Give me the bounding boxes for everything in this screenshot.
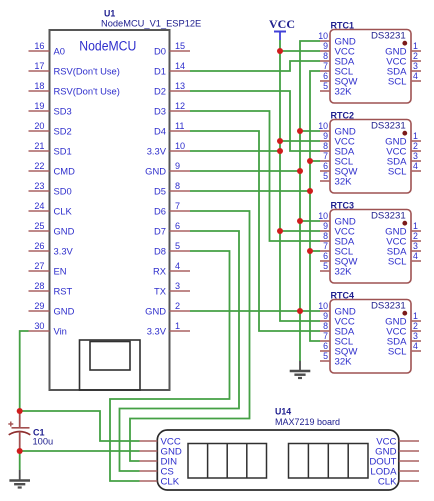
RTC2 left pin 10 GND [318, 121, 356, 137]
svg-text:6: 6 [323, 161, 328, 171]
svg-text:11: 11 [175, 121, 184, 131]
U14 left pin CLK [140, 477, 180, 488]
U1 left pin 27 EN [29, 261, 67, 276]
wire GND pin 9 to GND rail [190, 170, 300, 172]
svg-text:7: 7 [323, 241, 328, 251]
op-amp RTC3 DS3231 symbol body [330, 210, 411, 284]
RTC3 right pin 2 VCC [386, 231, 421, 247]
U1 right pin 1 3.3V [147, 321, 190, 336]
svg-text:DS3231: DS3231 [371, 121, 406, 132]
svg-text:SD3: SD3 [54, 106, 72, 117]
U1 right pin 3 TX [154, 281, 190, 296]
svg-text:CLK: CLK [378, 477, 397, 488]
svg-text:D7: D7 [154, 226, 166, 237]
svg-text:24: 24 [34, 201, 44, 211]
svg-text:100u: 100u [33, 436, 54, 446]
RTC1 right pin 1 GND [385, 41, 421, 57]
svg-text:5: 5 [323, 261, 328, 271]
svg-text:15: 15 [175, 41, 185, 51]
RTC1 right pin 4 SCL [388, 71, 421, 87]
wire D1 pin 14 to RTC1 SDA pin 8 [190, 61, 320, 71]
op-amp RTC4 DS3231 symbol body [330, 300, 411, 374]
U14 left pin GND [140, 447, 182, 458]
junction VCC rail RTC2 [277, 138, 283, 144]
svg-text:7: 7 [323, 61, 328, 71]
svg-text:D2: D2 [154, 86, 166, 97]
svg-text:RTC4: RTC4 [331, 291, 355, 301]
svg-text:D8: D8 [154, 246, 166, 257]
svg-text:18: 18 [34, 81, 44, 91]
wire D2 pin 13 to RTC2 SDA pin 8 [190, 91, 320, 151]
svg-text:RX: RX [153, 266, 167, 277]
svg-text:VCC: VCC [269, 17, 295, 31]
svg-text:NodeMCU_V1_ESP12E: NodeMCU_V1_ESP12E [101, 18, 201, 28]
wire Vin pin 30 down to capacitor C1 [20, 331, 29, 411]
svg-text:17: 17 [34, 61, 44, 71]
svg-text:6: 6 [323, 71, 328, 81]
svg-text:CMD: CMD [54, 166, 76, 177]
svg-text:3.3V: 3.3V [147, 326, 167, 337]
wire GND rail branch to RTC3 GND pin 10 [300, 220, 320, 222]
svg-text:10: 10 [318, 301, 328, 311]
svg-text:D4: D4 [154, 126, 166, 137]
svg-text:GND: GND [54, 226, 75, 237]
junction SCL rail RTC2 [307, 158, 313, 164]
svg-text:RTC3: RTC3 [331, 201, 355, 211]
svg-text:A0: A0 [54, 46, 65, 57]
U14 right pin VCC [376, 437, 419, 448]
svg-text:7: 7 [323, 151, 328, 161]
RTC3 right pin 4 SCL [388, 251, 421, 267]
svg-text:1: 1 [413, 221, 418, 231]
wire VCC rail branch to RTC3 VCC pin 9 [280, 230, 320, 232]
svg-text:22: 22 [34, 161, 44, 171]
junction SCL rail RTC3 [307, 248, 313, 254]
svg-text:9: 9 [323, 131, 328, 141]
U1 right pin 9 GND [145, 161, 190, 176]
U1 left pin 24 CLK [29, 201, 73, 216]
svg-text:9: 9 [323, 311, 328, 321]
svg-text:7: 7 [175, 201, 180, 211]
svg-text:2: 2 [175, 301, 180, 311]
svg-text:2: 2 [413, 321, 418, 331]
svg-text:4: 4 [413, 71, 418, 81]
RTC1 right pin 2 VCC [386, 51, 421, 67]
svg-text:19: 19 [34, 101, 44, 111]
RTC4 right pin 2 VCC [386, 321, 421, 337]
svg-text:5: 5 [323, 171, 328, 181]
RTC2 left pin 9 VCC [320, 131, 355, 147]
svg-text:32K: 32K [335, 177, 353, 188]
svg-text:5: 5 [323, 351, 328, 361]
svg-text:NodeMCU: NodeMCU [79, 38, 136, 53]
U14 left pin CS [140, 467, 174, 478]
svg-text:8: 8 [323, 231, 328, 241]
wire SCL rail vertical RTC1 SCL to RTC4 SCL [310, 71, 320, 341]
svg-text:32K: 32K [335, 357, 353, 368]
svg-text:2: 2 [413, 51, 418, 61]
svg-text:21: 21 [34, 141, 44, 151]
svg-text:8: 8 [323, 141, 328, 151]
svg-text:SCL: SCL [388, 167, 407, 178]
svg-text:GND: GND [145, 166, 166, 177]
svg-text:GND: GND [145, 306, 166, 317]
RTC2 left pin 8 SDA [320, 141, 355, 157]
RTC2 left pin 6 SQW [320, 161, 358, 177]
U14 left pin VCC [140, 437, 181, 448]
op-amp RTC1 DS3231 symbol body [330, 30, 411, 104]
svg-text:28: 28 [34, 281, 44, 291]
U1 right pin 5 D8 [154, 241, 190, 256]
U14 left pin DIN [140, 457, 178, 468]
RTC3 left pin 6 SQW [320, 251, 358, 267]
U1 right pin 7 D6 [154, 201, 190, 216]
U1 right pin 6 D7 [154, 221, 190, 236]
U14 right pin CLK [378, 477, 419, 488]
wire D5 pin 8 to SCL rail [190, 190, 310, 192]
svg-text:4: 4 [413, 341, 418, 351]
U1 left pin 21 SD1 [29, 141, 72, 156]
wire 3.3V pin 10 to VCC rail [190, 150, 280, 152]
svg-text:MAX7219 board: MAX7219 board [275, 417, 340, 427]
wire D7 pin 6 to U14 CS [120, 231, 240, 471]
U14 right pin DOUT [369, 457, 419, 468]
junction GND rail RTC4 [297, 308, 303, 314]
wire D8 pin 5 to U14 CLK [110, 251, 230, 481]
U1 left pin 19 SD3 [29, 101, 72, 116]
svg-text:27: 27 [34, 261, 44, 271]
svg-text:DS3231: DS3231 [371, 31, 406, 42]
wire GND rail branch to RTC2 GND pin 10 [300, 130, 320, 132]
U1 left pin 17 RSV(Don't Use) [29, 61, 120, 76]
U1 right pin 4 RX [153, 261, 190, 276]
svg-text:U14: U14 [275, 407, 291, 417]
svg-text:2: 2 [413, 141, 418, 151]
U1 right pin 14 D1 [154, 61, 190, 76]
svg-text:29: 29 [34, 301, 44, 311]
svg-text:32K: 32K [335, 87, 353, 98]
svg-text:2: 2 [413, 231, 418, 241]
svg-text:CLK: CLK [54, 206, 73, 217]
svg-text:RTC1: RTC1 [331, 21, 355, 31]
U1 left pin 16 A0 [29, 41, 65, 56]
svg-text:6: 6 [323, 341, 328, 351]
RTC4 left pin 9 VCC [320, 311, 355, 327]
RTC1 left pin 7 SCL [320, 61, 354, 77]
U1 left pin 18 RSV(Don't Use) [29, 81, 120, 96]
junction VCC rail RTC3 [277, 228, 283, 234]
svg-text:Vin: Vin [54, 326, 67, 337]
svg-text:1: 1 [413, 41, 418, 51]
svg-text:SCL: SCL [388, 77, 407, 88]
svg-text:10: 10 [318, 211, 328, 221]
RTC4 left pin 7 SCL [320, 331, 354, 347]
svg-text:SCL: SCL [388, 347, 407, 358]
RTC4 left pin 10 GND [318, 301, 356, 317]
junction VCC rail RTC1 [277, 48, 283, 54]
svg-text:D1: D1 [154, 66, 166, 77]
RTC2 right pin 2 VCC [386, 141, 421, 157]
RTC2 left pin 7 SCL [320, 151, 354, 167]
svg-text:RTC2: RTC2 [331, 111, 355, 121]
svg-text:5: 5 [323, 81, 328, 91]
wire D6 pin 7 to U14 DIN [130, 211, 250, 461]
svg-text:10: 10 [318, 31, 328, 41]
svg-text:4: 4 [413, 161, 418, 171]
U14 right pin LODA [370, 467, 419, 478]
svg-text:SCL: SCL [388, 257, 407, 268]
U1 right pin 13 D2 [154, 81, 190, 96]
svg-text:3: 3 [413, 241, 418, 251]
svg-text:16: 16 [34, 41, 44, 51]
wire VCC rail branch to RTC1 VCC pin 9 [280, 50, 320, 52]
wire D4 pin 11 to RTC4 SDA pin 8 [190, 131, 320, 331]
U1 left pin 23 SD0 [29, 181, 72, 196]
svg-text:TX: TX [154, 286, 167, 297]
RTC1 left pin 6 SQW [320, 71, 358, 87]
junction GND C1 node [17, 448, 23, 454]
svg-text:10: 10 [318, 121, 328, 131]
svg-text:1: 1 [175, 321, 180, 331]
svg-text:D3: D3 [154, 106, 166, 117]
RTC3 right pin 3 SDA [387, 241, 421, 257]
capacitor C1 100u polarized [8, 411, 30, 451]
svg-text:23: 23 [34, 181, 44, 191]
junction VCC rail 3.3V feed [277, 148, 283, 154]
svg-text:EN: EN [54, 266, 67, 277]
svg-text:RSV(Don't Use): RSV(Don't Use) [54, 66, 120, 77]
svg-text:4: 4 [175, 261, 180, 271]
svg-text:CLK: CLK [161, 477, 180, 488]
svg-text:RSV(Don't Use): RSV(Don't Use) [54, 86, 120, 97]
U1 left pin 26 3.3V [29, 241, 74, 256]
junction GND rail RTC2 [297, 128, 303, 134]
RTC4 left pin 8 SDA [320, 321, 355, 337]
U1 left pin 22 CMD [29, 161, 76, 176]
RTC1 left pin 5 32K [320, 81, 352, 97]
svg-text:1: 1 [413, 311, 418, 321]
wire SCL rail branch to RTC2 SCL pin 7 [310, 160, 320, 162]
power VCC symbol [269, 17, 295, 40]
RTC2 right pin 1 GND [385, 131, 421, 147]
svg-text:GND: GND [54, 306, 75, 317]
svg-text:8: 8 [323, 321, 328, 331]
U1 left pin 25 GND [29, 221, 75, 236]
RTC3 left pin 9 VCC [320, 221, 355, 237]
wire GND rail vertical from RTC1 GND down to ground [300, 41, 320, 361]
RTC1 left pin 10 GND [318, 31, 356, 47]
svg-text:SD0: SD0 [54, 186, 72, 197]
RTC2 right pin 3 SDA [387, 151, 421, 167]
RTC4 right pin 3 SDA [387, 331, 421, 347]
RTC1 left pin 8 SDA [320, 51, 355, 67]
op-amp U14 MAX7219 board symbol body [157, 430, 398, 490]
svg-text:9: 9 [323, 41, 328, 51]
wire D3 pin 12 to RTC3 SDA pin 8 [190, 111, 320, 241]
U1 right pin 11 D4 [154, 121, 190, 136]
svg-text:32K: 32K [335, 267, 353, 278]
svg-text:3.3V: 3.3V [147, 146, 167, 157]
junction GND rail RTC3 [297, 218, 303, 224]
U1 left pin 30 Vin [29, 321, 67, 336]
U1 right pin 15 D0 [154, 41, 190, 56]
svg-text:RST: RST [54, 286, 73, 297]
U1 right pin 8 D5 [154, 181, 190, 196]
RTC4 right pin 1 GND [385, 311, 421, 327]
svg-text:25: 25 [34, 221, 44, 231]
U14 right pin GND [375, 447, 419, 458]
op-amp RTC2 DS3231 symbol body [330, 120, 411, 194]
junction Vin C1 node [17, 408, 23, 414]
op-amp U1 NodeMCU_V1_ESP12E symbol body [50, 30, 170, 390]
wire VCC rail vertical from VCC symbol down to RTC4 VCC [280, 40, 320, 321]
svg-text:3: 3 [413, 61, 418, 71]
wire ground node to U14 GND [20, 450, 140, 452]
U1 right pin 10 3.3V [147, 141, 190, 156]
svg-text:3.3V: 3.3V [54, 246, 74, 257]
junction SCL rail D5 feed [307, 188, 313, 194]
svg-text:3: 3 [413, 151, 418, 161]
RTC4 right pin 4 SCL [388, 341, 421, 357]
RTC4 left pin 6 SQW [320, 341, 358, 357]
RTC3 left pin 8 SDA [320, 231, 355, 247]
svg-text:26: 26 [34, 241, 44, 251]
svg-text:12: 12 [175, 101, 185, 111]
RTC1 right pin 3 SDA [387, 61, 421, 77]
svg-text:3: 3 [413, 331, 418, 341]
RTC3 left pin 10 GND [318, 211, 356, 227]
svg-text:10: 10 [175, 141, 185, 151]
svg-text:3: 3 [175, 281, 180, 291]
wire node Vin to U14 VCC [20, 411, 140, 441]
RTC3 left pin 7 SCL [320, 241, 354, 257]
wire C1 minus to ground node [19, 451, 21, 470]
svg-text:4: 4 [413, 251, 418, 261]
U1 left pin 20 SD2 [29, 121, 72, 136]
svg-text:6: 6 [323, 251, 328, 261]
RTC2 left pin 5 32K [320, 171, 352, 187]
junction GND rail pin9 feed [297, 168, 303, 174]
svg-text:20: 20 [34, 121, 44, 131]
svg-text:DS3231: DS3231 [371, 211, 406, 222]
ground symbol below C1 [9, 470, 30, 488]
svg-text:DS3231: DS3231 [371, 301, 406, 312]
wire GND pin 2 through GND rail to RTC4 GND pin 10 [190, 310, 320, 312]
svg-text:7: 7 [323, 331, 328, 341]
svg-text:30: 30 [34, 321, 44, 331]
RTC4 left pin 5 32K [320, 351, 352, 367]
RTC2 right pin 4 SCL [388, 161, 421, 177]
svg-text:6: 6 [175, 221, 180, 231]
U1 left pin 28 RST [29, 281, 73, 296]
ground symbol for RTC GND rail [290, 361, 311, 379]
RTC1 left pin 9 VCC [320, 41, 355, 57]
svg-text:1: 1 [413, 131, 418, 141]
wire VCC rail branch to RTC2 VCC pin 9 [280, 140, 320, 142]
RTC3 right pin 1 GND [385, 221, 421, 237]
svg-text:D5: D5 [154, 186, 166, 197]
svg-text:5: 5 [175, 241, 180, 251]
wire SCL rail branch to RTC3 SCL pin 7 [310, 250, 320, 252]
svg-text:D0: D0 [154, 46, 166, 57]
U1 right pin 2 GND [145, 301, 190, 316]
svg-text:8: 8 [323, 51, 328, 61]
svg-text:U1: U1 [104, 9, 115, 19]
U1 left pin 29 GND [29, 301, 75, 316]
svg-text:9: 9 [175, 161, 180, 171]
U1 right pin 12 D3 [154, 101, 190, 116]
svg-text:D6: D6 [154, 206, 166, 217]
svg-text:14: 14 [175, 61, 185, 71]
svg-text:8: 8 [175, 181, 180, 191]
svg-text:13: 13 [175, 81, 185, 91]
svg-text:SD1: SD1 [54, 146, 72, 157]
svg-text:SD2: SD2 [54, 126, 72, 137]
RTC3 left pin 5 32K [320, 261, 352, 277]
svg-text:9: 9 [323, 221, 328, 231]
